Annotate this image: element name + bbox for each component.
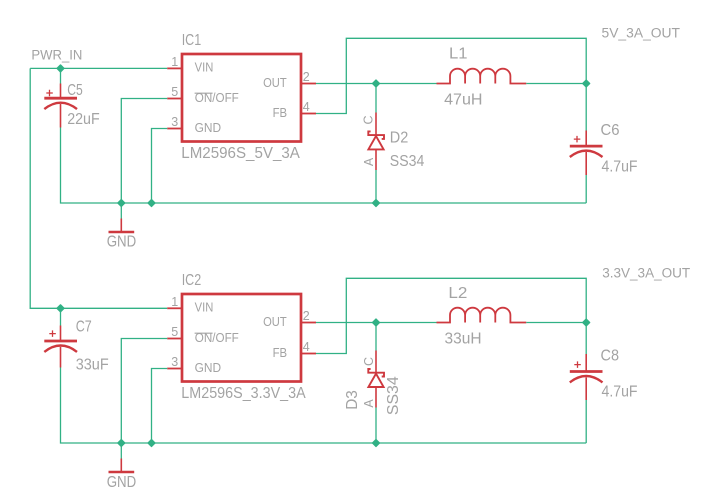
wire GND symbol stub <box>120 203 122 219</box>
wire C6 bottom to GND rail <box>585 175 587 203</box>
svg-text:1: 1 <box>171 295 178 309</box>
junction GND rail / pin3 <box>148 200 155 207</box>
svg-text:PWR_IN: PWR_IN <box>31 47 82 62</box>
wire GND symbol stub bottom <box>120 443 122 459</box>
pin 3 stub GND (IC2) <box>167 368 182 370</box>
svg-text:L2: L2 <box>448 285 467 302</box>
svg-text:4: 4 <box>303 340 310 354</box>
capacitor C8 <box>570 354 603 400</box>
svg-text:5V_3A_OUT: 5V_3A_OUT <box>602 25 681 40</box>
capacitor C6 <box>570 131 603 176</box>
svg-text:33uF: 33uF <box>76 356 109 373</box>
inductor L1 <box>437 69 527 84</box>
wire PWR_IN horizontal to IC1 pin1 <box>30 67 167 69</box>
svg-text:C7: C7 <box>76 318 92 335</box>
capacitor C5 <box>44 84 77 128</box>
diode D2 SS34 schottky <box>368 113 384 171</box>
pin 5 stub ON/OFF <box>167 98 182 100</box>
svg-text:47uH: 47uH <box>444 92 482 109</box>
svg-text:3.3V_3A_OUT: 3.3V_3A_OUT <box>602 266 690 281</box>
wire FB to top rail and to C8 (IC2) <box>316 278 586 354</box>
capacitor C7 <box>44 326 77 368</box>
wire FB to top rail and to C6 <box>316 38 586 130</box>
wire D3 bottom to GND rail <box>375 408 377 444</box>
svg-text:SS34: SS34 <box>385 376 402 415</box>
pin 5 stub ON/OFF (IC2) <box>167 338 182 340</box>
svg-text:GND: GND <box>195 121 222 135</box>
svg-text:GND: GND <box>195 361 222 375</box>
wire D3 top lead <box>375 323 377 351</box>
inductor L2 <box>437 308 527 323</box>
junction GND rail bottom / D3 <box>373 440 380 447</box>
wire OUT pin2 to inductor (IC2) <box>316 322 437 324</box>
IC U1 box <box>182 54 301 142</box>
svg-text:C: C <box>361 115 375 124</box>
junction GND rail / D2 <box>373 200 380 207</box>
svg-text:A: A <box>362 157 376 166</box>
wire D2 top lead <box>375 84 377 113</box>
svg-text:C8: C8 <box>601 348 620 365</box>
svg-text:IC1: IC1 <box>182 32 202 49</box>
pin 1 stub VIN <box>167 67 182 69</box>
svg-text:VIN: VIN <box>195 301 214 315</box>
junction PWR_IN / C7 <box>57 305 64 312</box>
wire C7 bottom to GND rail bottom <box>61 368 587 444</box>
junction GND rail / pin5 <box>118 200 125 207</box>
junction OUT node / D2 <box>373 80 380 87</box>
ground symbol bottom <box>109 459 135 473</box>
junction GND rail bottom / pin5 <box>118 440 125 447</box>
svg-text:FB: FB <box>273 106 288 120</box>
wire C5 bottom to GND rail <box>61 128 587 204</box>
wire pin3 to GND rail <box>152 129 168 204</box>
svg-text:FB: FB <box>273 346 288 360</box>
svg-text:C5: C5 <box>67 82 83 99</box>
svg-text:VIN: VIN <box>195 61 214 75</box>
wire C5 top lead <box>60 68 62 83</box>
svg-text:IC2: IC2 <box>182 272 202 289</box>
junction L2 out / C8 <box>583 319 590 326</box>
svg-text:C6: C6 <box>601 122 620 139</box>
diode D3 SS34 schottky <box>368 351 384 408</box>
wire pin5 to GND rail (IC2) <box>121 339 167 444</box>
junction L1 out / C6 <box>583 80 590 87</box>
svg-text:D3: D3 <box>344 390 361 410</box>
wire OUT pin2 to inductor <box>316 83 437 85</box>
pin 2 stub OUT <box>301 83 316 85</box>
pin 4 stub FB (IC2) <box>301 353 316 355</box>
wire D2 bottom to GND rail <box>375 170 377 203</box>
wire pin3 to GND rail (IC2) <box>152 369 168 444</box>
junction GND rail bottom / pin3 <box>148 440 155 447</box>
svg-text:2: 2 <box>303 70 310 84</box>
pin 1 stub VIN (IC2) <box>167 307 182 309</box>
junction PWR_IN / C5 <box>57 65 64 72</box>
junction OUT node / D3 <box>373 319 380 326</box>
svg-text:L1: L1 <box>449 45 468 62</box>
ground symbol top <box>109 219 135 233</box>
svg-text:GND: GND <box>107 233 137 250</box>
pin 4 stub FB <box>301 113 316 115</box>
pin 2 stub OUT (IC2) <box>301 322 316 324</box>
wire C7 top lead <box>60 308 62 325</box>
svg-text:5: 5 <box>171 85 178 99</box>
svg-text:LM2596S_3.3V_3A: LM2596S_3.3V_3A <box>181 385 306 402</box>
svg-text:OUT: OUT <box>263 76 287 90</box>
svg-text:4.7uF: 4.7uF <box>602 384 638 401</box>
svg-text:GND: GND <box>107 474 137 491</box>
svg-text:2: 2 <box>303 309 310 323</box>
wire L1 to C6 node <box>526 83 586 85</box>
svg-text:4: 4 <box>303 100 310 114</box>
wire L2 to C8 node <box>526 322 586 324</box>
svg-text:SS34: SS34 <box>390 153 425 170</box>
svg-text:22uF: 22uF <box>67 111 100 128</box>
svg-text:A: A <box>362 399 376 408</box>
wire C8 bottom to GND rail <box>585 400 587 443</box>
svg-text:LM2596S_5V_3A: LM2596S_5V_3A <box>181 145 300 162</box>
svg-text:4.7uF: 4.7uF <box>602 158 638 175</box>
svg-text:D2: D2 <box>390 129 409 146</box>
svg-text:5: 5 <box>171 325 178 339</box>
svg-text:1: 1 <box>171 55 178 69</box>
svg-text:OUT: OUT <box>263 315 287 329</box>
svg-text:3: 3 <box>171 355 178 369</box>
svg-text:3: 3 <box>171 115 178 129</box>
IC U2 box <box>182 294 301 382</box>
wire left rail PWR_IN down to IC2 pin1 <box>30 68 167 308</box>
wire pin5 to GND rail <box>121 99 167 204</box>
svg-text:33uH: 33uH <box>445 330 482 347</box>
pin 3 stub GND <box>167 128 182 130</box>
svg-text:C: C <box>362 357 376 366</box>
